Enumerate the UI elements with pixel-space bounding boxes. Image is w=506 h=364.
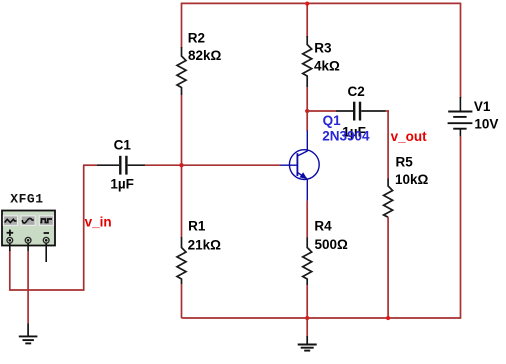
pin stub: common terminal lead — [27, 243, 29, 251]
svg-text:82kΩ: 82kΩ — [188, 48, 222, 63]
capacitor C1 — [97, 156, 145, 175]
resistor R5 — [384, 179, 393, 218]
svg-text:4kΩ: 4kΩ — [314, 59, 340, 74]
wire: red segment junction to collector pin — [306, 111, 308, 131]
wire: bottom rail — [182, 317, 461, 319]
XFG1 plus sign — [7, 230, 14, 236]
wire: top rail from left branch to right branch — [182, 2, 461, 4]
wire: left rail from R1 to bottom rail — [181, 284, 183, 318]
node: junction at C1 / base wire — [179, 163, 183, 167]
wire: v_in vertical rail — [83, 165, 85, 290]
svg-text:R3: R3 — [314, 41, 332, 56]
svg-text:v_in: v_in — [85, 215, 112, 230]
svg-text:1µF: 1µF — [110, 176, 134, 191]
svg-text:C1: C1 — [114, 137, 132, 152]
svg-text:10V: 10V — [474, 117, 498, 132]
svg-text:R1: R1 — [188, 219, 206, 234]
resistor R3 — [303, 36, 312, 87]
XFG1 square-wave button — [39, 216, 53, 226]
instrument XFG1 body — [2, 211, 55, 246]
node: junction R3 / C2 / collector — [305, 109, 309, 113]
XFG1 minus sign — [44, 232, 49, 234]
wire: C2 right to v_out corner — [386, 110, 389, 112]
wire: C2 branch red segment from junction — [307, 110, 336, 112]
node: junction bottom rail / R4 / ground — [305, 316, 309, 320]
wire: left rail between R2 and C1 junction — [181, 95, 183, 165]
svg-text:R5: R5 — [396, 155, 414, 170]
wire: C1 right segment to junction — [145, 164, 181, 166]
svg-text:R4: R4 — [314, 219, 332, 234]
node: junction bottom rail / R5 — [386, 316, 390, 320]
resistor R4 — [303, 238, 312, 286]
XFG1 triangle-wave button — [4, 216, 18, 226]
wire: R4 to bottom rail — [306, 285, 308, 318]
wire: v_out rail down to R5 — [387, 110, 389, 179]
wire: C1 left red stub — [83, 164, 97, 166]
resistor R1 — [177, 237, 186, 284]
wire: left rail between junction and R1 — [181, 165, 183, 237]
wire: XFG1 plus-terminal horizontal run — [10, 289, 85, 291]
wire: base wire from junction to Q1 — [182, 164, 281, 166]
wire: emitter pin to R4 — [306, 201, 308, 238]
wire: bottom rail to main ground — [306, 318, 308, 336]
ground: XFG1 ground symbol — [19, 324, 38, 344]
wire: mid rail between R3 and collector junction — [306, 87, 308, 111]
transistor Q1 2N3904 — [280, 131, 319, 201]
XFG1 minus terminal — [43, 237, 49, 243]
pin stub: plus terminal lead — [9, 243, 11, 251]
wire: R5 to bottom rail — [387, 217, 389, 318]
ground: main ground symbol — [298, 336, 317, 351]
resistor R2 — [177, 47, 186, 95]
XFG1 common terminal — [25, 237, 31, 243]
svg-text:C2: C2 — [348, 84, 365, 99]
svg-text:R2: R2 — [188, 31, 205, 46]
battery V1 — [448, 97, 473, 136]
svg-text:500Ω: 500Ω — [315, 237, 349, 252]
wire: XFG1 common terminal down to ground — [27, 251, 29, 324]
capacitor C2 — [336, 102, 386, 121]
svg-text:V1: V1 — [474, 99, 491, 114]
XFG1 plus terminal — [7, 237, 13, 243]
wire: right rail upper segment (top rail to V1) — [460, 3, 462, 98]
wire: mid rail upper segment (top rail to R3) — [306, 3, 308, 37]
svg-text:Q1: Q1 — [323, 113, 342, 128]
svg-text:2N3904: 2N3904 — [322, 129, 370, 144]
wire: right rail lower segment (V1 to bottom rail) — [460, 136, 462, 318]
pin stub: minus terminal lead (unconnected) — [45, 243, 47, 262]
node: junction top rail / R3 — [305, 2, 309, 6]
svg-text:10kΩ: 10kΩ — [395, 172, 429, 187]
svg-text:XFG1: XFG1 — [10, 192, 43, 207]
XFG1 sine-wave button — [21, 216, 35, 226]
svg-text:v_out: v_out — [391, 129, 428, 144]
wire: XFG1 plus-terminal vertical drop — [9, 250, 11, 291]
wire: left rail upper segment (top rail to R2) — [181, 3, 183, 48]
svg-text:21kΩ: 21kΩ — [188, 238, 222, 253]
